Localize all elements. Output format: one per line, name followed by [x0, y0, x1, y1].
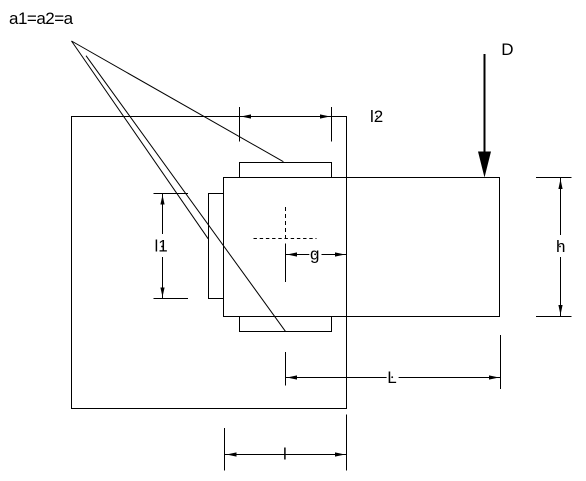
dimension h bottom extension tick	[536, 316, 572, 318]
dimension l right arrow	[335, 452, 345, 456]
dimension l right extension tick	[346, 415, 348, 471]
force D arrow stem	[484, 54, 486, 154]
force D arrowhead	[478, 152, 491, 178]
dimension h line upper segment	[560, 178, 562, 236]
svg-text:l: l	[283, 445, 287, 464]
dimension l1 top extension tick	[154, 193, 189, 195]
node dot at h label	[559, 246, 561, 248]
node dot at l1 label	[161, 246, 163, 248]
dimension l1 down arrow	[160, 288, 164, 298]
dimension g right arrow	[335, 252, 345, 256]
dimension l1 line lower segment	[162, 257, 164, 299]
centroid dashed crosshair vertical	[285, 207, 287, 240]
svg-text:l1: l1	[155, 237, 168, 256]
leader line to left weld	[72, 41, 209, 239]
dimension g left tick (centroid line)	[285, 244, 287, 283]
leader line to top weld	[72, 41, 284, 162]
dimension h down arrow	[558, 305, 562, 315]
dimension h top extension tick	[536, 177, 572, 179]
dimension L left arrow	[287, 375, 297, 379]
dimension L right extension tick	[500, 335, 502, 389]
dimension h up arrow	[558, 179, 562, 189]
dimension g line	[286, 254, 347, 256]
dimension l2 right arrow	[320, 114, 330, 118]
dimension l1 bottom extension tick	[154, 298, 189, 300]
dimension L right arrow	[489, 375, 499, 379]
dimension L label mask	[387, 369, 399, 384]
dimension L line	[286, 377, 501, 379]
column plate (big square)	[72, 117, 347, 409]
svg-text:D: D	[501, 40, 513, 59]
node dot at g label	[314, 253, 316, 255]
dimension l2 left arrow	[241, 114, 251, 118]
dimension l line	[225, 454, 347, 456]
node dot at l2 label	[376, 115, 378, 117]
top weld strip	[240, 163, 332, 178]
leader line to bottom weld	[86, 56, 285, 332]
dimension L left extension tick	[285, 352, 287, 386]
svg-text:a1=a2=a: a1=a2=a	[9, 9, 74, 28]
dimension l left extension tick	[224, 428, 226, 471]
dimension g label mask	[309, 247, 321, 263]
dimension l2 left extension tick	[239, 107, 241, 142]
left weld strip	[209, 194, 224, 299]
bottom weld strip	[240, 317, 332, 332]
node dot at L label	[391, 376, 393, 378]
dimension l1 up arrow	[160, 195, 164, 205]
dimension g left arrow	[287, 252, 297, 256]
dimension l left arrow	[227, 452, 237, 456]
beam outline	[224, 178, 500, 317]
dimension l1 line upper segment	[162, 194, 164, 235]
centroid dashed crosshair horizontal	[254, 238, 317, 240]
dimension l2 right extension tick	[331, 107, 333, 142]
dimension h line lower segment	[560, 257, 562, 317]
